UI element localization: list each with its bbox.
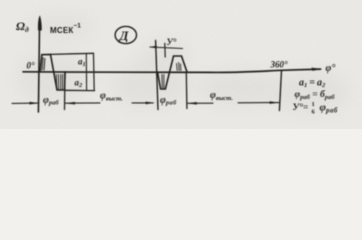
a-dimension bracket: [93, 53, 96, 90]
pulse 2 waveform: [158, 56, 188, 89]
scan mottle: [17, 15, 350, 114]
dimension phi_vyst 2: line and right arrow: [238, 102, 270, 104]
svg-text:a1 = a2: a1 = a2: [299, 77, 326, 89]
Y-degree dimension line above pulse 2: [150, 47, 183, 49]
svg-text:У°=: У°=: [293, 102, 309, 113]
paper background: [0, 0, 362, 129]
fraction bar: [310, 106, 317, 108]
dimension phi_rab 1: left tail and arrow: [12, 102, 38, 104]
extension bar at start of pulse2 (tall): [156, 41, 158, 110]
extension bar at end of pulse2 working angle: [185, 73, 188, 109]
dimension phi_rab 2: left-pointing arrow with tail: [188, 102, 214, 104]
a-dimension tie line: [85, 54, 87, 91]
abscissa axis: [23, 69, 321, 72]
extension bar at 360 degrees: [279, 71, 281, 111]
ordinate axis (vertical): [38, 20, 39, 112]
a1 level line: [51, 53, 94, 54]
hatch in positive lobe of pulse 1: [42, 58, 45, 71]
hatch in trough of pulse 2: [162, 75, 164, 89]
hatch in trough of pulse 1: [56, 75, 62, 90]
ordinate axis arrowhead: [38, 16, 42, 31]
svg-text:У°: У°: [167, 37, 177, 47]
hatch at base of pulse 2 peak: [177, 63, 181, 71]
a2 level line: [65, 89, 95, 91]
svg-text:Д: Д: [119, 28, 130, 43]
D circle (ellipse): [115, 26, 136, 43]
svg-text:0°: 0°: [27, 60, 36, 70]
svg-text:360°: 360°: [270, 60, 289, 70]
svg-text:φ°: φ°: [326, 63, 336, 74]
pulse 1 waveform: [40, 54, 65, 90]
dimension phi_vyst 1: line and right arrow: [132, 102, 153, 104]
extension bar at end of pulse1 working angle: [64, 72, 67, 110]
Y-degree second extension bar: [164, 43, 166, 57]
abscissa axis arrowhead: [312, 68, 323, 71]
svg-text:1: 1: [312, 101, 315, 108]
dimension phi_rab 1: right arrow with tail: [66, 102, 101, 104]
